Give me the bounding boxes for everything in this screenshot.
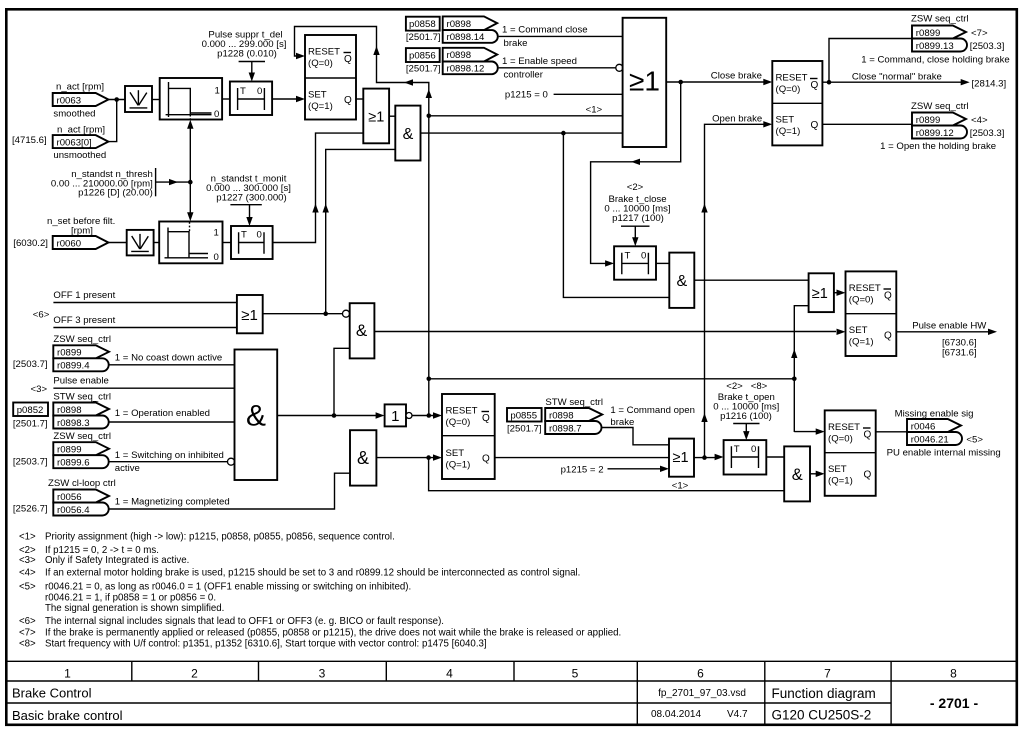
svg-text:5: 5 xyxy=(572,667,579,681)
inverter I1 xyxy=(385,404,412,426)
svg-text:&: & xyxy=(246,400,266,433)
wire G1 to AND gate A2 xyxy=(389,115,395,117)
svg-text:<5>: <5> xyxy=(966,434,983,445)
junction close-command branch xyxy=(561,131,566,136)
svg-text:&: & xyxy=(792,466,803,484)
parameter p1227 label xyxy=(206,174,291,205)
svg-text:r0899: r0899 xyxy=(916,115,941,126)
connector pair r0898.12 (enable speed controller) xyxy=(443,48,498,75)
svg-text:<7>: <7> xyxy=(971,28,988,39)
svg-text:OFF 3 present: OFF 3 present xyxy=(53,315,115,326)
svg-text:OFF 1 present: OFF 1 present xyxy=(53,290,115,301)
svg-text:If the brake is permanently ap: If the brake is permanently applied or r… xyxy=(45,628,621,639)
svg-text:<2>: <2> xyxy=(627,182,644,193)
svg-text:&: & xyxy=(403,126,414,143)
svg-text:r0899: r0899 xyxy=(57,348,82,359)
OR gate G2 (OFF present) xyxy=(237,295,263,333)
svg-text:(Q=1): (Q=1) xyxy=(849,337,874,348)
svg-text:&: & xyxy=(357,448,369,468)
timer T1 (pulse suppression delay) xyxy=(230,82,272,116)
connector pair r0899.6 (ZSW seq_ctrl switching on inhibited) xyxy=(13,431,224,474)
signal p1215 = 0 xyxy=(505,90,623,101)
wire FF1 Q to OR gate G1 xyxy=(356,98,363,100)
svg-text:ZSW seq_ctrl: ZSW seq_ctrl xyxy=(53,431,111,442)
wire I1 output to FF4 RESET xyxy=(412,412,442,418)
svg-text:[2503.7]: [2503.7] xyxy=(13,456,48,467)
label priority note 1 (open) xyxy=(672,480,689,491)
junction n_act xyxy=(114,97,119,102)
svg-text:[2814.3]: [2814.3] xyxy=(972,79,1007,90)
svg-text:<6>: <6> xyxy=(33,310,50,321)
svg-text:Open brake: Open brake xyxy=(712,113,762,124)
wire close-command branch to AND gate A4 xyxy=(563,133,669,297)
svg-text:ZSW seq_ctrl: ZSW seq_ctrl xyxy=(53,334,111,345)
parameter p1216 label xyxy=(713,381,779,424)
svg-text:p1217 (100): p1217 (100) xyxy=(612,213,664,224)
wire G6 output to FF3 RESET xyxy=(834,290,846,296)
svg-text:STW seq_ctrl: STW seq_ctrl xyxy=(545,397,603,408)
inverter bubble at A7 input xyxy=(228,458,235,465)
parameter p1228 label xyxy=(202,30,287,62)
label missing enable sig xyxy=(895,408,974,419)
label enable speed controller xyxy=(502,56,577,80)
svg-text:1 = Magnetizing completed: 1 = Magnetizing completed xyxy=(115,496,230,507)
connector pair r0046.21 xyxy=(887,419,1001,458)
svg-text:RESET: RESET xyxy=(776,73,808,84)
svg-text:<8>: <8> xyxy=(19,639,36,650)
svg-text:Q: Q xyxy=(864,470,872,481)
wire FF2 Q to r0899.12 xyxy=(822,123,912,125)
svg-text:ZSW seq_ctrl: ZSW seq_ctrl xyxy=(911,13,969,24)
svg-text:Function diagram: Function diagram xyxy=(772,686,876,701)
connector r0063[0] (n_act unsmoothed) xyxy=(12,125,108,162)
svg-text:[6730.6]: [6730.6] xyxy=(942,337,977,348)
inverter bubble at A6 input xyxy=(343,310,350,317)
junction G4 output branch xyxy=(702,455,707,460)
priority OR gate G3 (close brake) xyxy=(623,18,667,147)
wire T1 to FF1 SET xyxy=(272,96,305,102)
svg-text:- 2701 -: - 2701 - xyxy=(930,695,979,711)
svg-text:brake: brake xyxy=(610,417,634,428)
svg-text:[6731.6]: [6731.6] xyxy=(942,348,977,359)
svg-text:r0898: r0898 xyxy=(447,19,472,30)
svg-text:ZSW seq_ctrl: ZSW seq_ctrl xyxy=(911,101,969,112)
footnotes xyxy=(19,532,621,650)
svg-text:[2526.7]: [2526.7] xyxy=(13,503,48,514)
svg-text:PU enable internal missing: PU enable internal missing xyxy=(887,447,1001,458)
label command close brake xyxy=(502,24,588,48)
wire A3 output to FF4 SET xyxy=(376,454,442,460)
svg-text:&: & xyxy=(356,321,368,340)
svg-text:p0858: p0858 xyxy=(409,19,436,30)
big AND gate A7 (ZSW interlock) xyxy=(235,350,278,481)
svg-text:G120 CU250S-2: G120 CU250S-2 xyxy=(772,708,872,723)
svg-text:RESET: RESET xyxy=(446,406,478,417)
wire C2 to timer T2 xyxy=(223,242,232,244)
svg-text:<6>: <6> xyxy=(19,616,36,627)
svg-text:SET: SET xyxy=(776,115,795,126)
svg-text:6: 6 xyxy=(697,667,704,681)
title block table xyxy=(5,661,1017,725)
wire OFF-OR output to AND gate A2 input xyxy=(323,149,396,313)
svg-text:Q: Q xyxy=(864,430,872,441)
absolute-value block B2 xyxy=(127,230,154,256)
svg-text:r0063: r0063 xyxy=(57,95,82,106)
svg-text:1 = No coast down active: 1 = No coast down active xyxy=(115,352,222,363)
wire A6 output to FF3 SET xyxy=(374,329,845,335)
signal p1215 = 2 xyxy=(561,465,669,476)
svg-text:(Q=0): (Q=0) xyxy=(776,84,801,95)
svg-text:(Q=1): (Q=1) xyxy=(308,101,333,112)
RS flip-flop FF4 (open brake command) xyxy=(442,394,495,479)
svg-text:p0855: p0855 xyxy=(510,410,537,421)
svg-text:p0852: p0852 xyxy=(17,405,44,416)
wire r0899.4 to big AND A7 xyxy=(109,364,235,366)
parameter p0855 box xyxy=(507,408,542,435)
label command open brake xyxy=(610,405,695,428)
junction FF2 Qbar branch xyxy=(827,80,832,85)
wire r0898.12 to inverted input of G3 xyxy=(499,67,616,69)
svg-text:Q: Q xyxy=(884,331,892,342)
connector pair r0898.14 (command close brake) xyxy=(443,16,498,43)
OR gate G4 (open brake priority) xyxy=(669,439,694,477)
junction G3 output branch xyxy=(678,80,683,85)
parameter p1226 label (standstill threshold) xyxy=(51,168,156,199)
junction open-command rail top xyxy=(427,377,432,382)
svg-text:r0898: r0898 xyxy=(57,405,82,416)
svg-text:1 = Open the holding brake: 1 = Open the holding brake xyxy=(880,141,996,152)
parameter p0852 box xyxy=(13,403,48,430)
junction A7 output branch xyxy=(332,413,337,418)
label ZSW seq_ctrl (open holding brake) xyxy=(911,101,969,112)
wire G3 output branch to timer T3 xyxy=(591,82,681,267)
wire G4 output branch to FF2 SET xyxy=(701,113,772,457)
RS flip-flop FF5 (PU enable) xyxy=(825,410,876,495)
connector pair r0899.13 xyxy=(861,26,1010,66)
svg-text:p1226 [D] (20.00): p1226 [D] (20.00) xyxy=(78,188,153,199)
svg-text:8: 8 xyxy=(950,667,957,681)
svg-text:Missing enable sig: Missing enable sig xyxy=(895,408,974,419)
wire p1227 to timer T2 xyxy=(246,205,252,226)
svg-text:1 = Command, close holding bra: 1 = Command, close holding brake xyxy=(861,54,1010,65)
parameter p1217 label xyxy=(604,182,670,226)
wire r0056.4 to AND gate A3 xyxy=(109,473,350,509)
inverter bubble at G3 input xyxy=(616,64,623,71)
svg-text:[rpm]: [rpm] xyxy=(71,226,93,237)
svg-text:r0898: r0898 xyxy=(549,410,574,421)
svg-text:<4>: <4> xyxy=(971,115,988,126)
svg-text:Pulse enable: Pulse enable xyxy=(53,375,108,386)
svg-text:T: T xyxy=(734,444,740,455)
svg-text:Priority assignment (high -> l: Priority assignment (high -> low): p1215… xyxy=(45,532,395,543)
svg-text:Start frequency with U/f contr: Start frequency with U/f control: p1351,… xyxy=(45,639,487,650)
svg-text:<2>: <2> xyxy=(726,381,743,392)
svg-text:If an external motor holding b: If an external motor holding brake is us… xyxy=(45,568,580,579)
svg-text:[2503.7]: [2503.7] xyxy=(13,359,48,370)
svg-text:(Q=0): (Q=0) xyxy=(849,295,874,306)
svg-text:SET: SET xyxy=(849,325,868,336)
svg-text:SET: SET xyxy=(446,448,465,459)
RS flip-flop FF3 (pulse enable HW) xyxy=(846,271,897,356)
svg-text:1 = Enable speed: 1 = Enable speed xyxy=(502,56,577,67)
svg-text:1 = Operation enabled: 1 = Operation enabled xyxy=(115,408,210,419)
svg-text:Q: Q xyxy=(344,54,352,65)
junction open-command rail right xyxy=(792,377,797,382)
svg-text:STW seq_ctrl: STW seq_ctrl xyxy=(53,392,111,403)
signal close normal brake xyxy=(852,72,1006,90)
svg-text:controller: controller xyxy=(504,69,544,80)
svg-text:Q: Q xyxy=(482,413,490,424)
wire B1 to comparator xyxy=(152,99,160,101)
svg-text:[2503.3]: [2503.3] xyxy=(970,41,1005,52)
svg-text:r0899.13: r0899.13 xyxy=(916,41,954,52)
svg-text:<5>: <5> xyxy=(19,582,36,593)
svg-text:r0898: r0898 xyxy=(447,50,472,61)
svg-text:[2501.7]: [2501.7] xyxy=(406,32,441,43)
wire r0898.7 to OR gate G4 xyxy=(602,428,670,445)
svg-text:<7>: <7> xyxy=(19,628,36,639)
wire G2 output to AND gate A6 xyxy=(263,313,343,315)
svg-text:r0899.6: r0899.6 xyxy=(57,458,90,469)
svg-text:1: 1 xyxy=(64,667,71,681)
wire p1226 to comparators xyxy=(156,120,194,222)
svg-text:1: 1 xyxy=(214,227,219,238)
svg-text:r0898.7: r0898.7 xyxy=(549,423,582,434)
wire T3 to AND gate A4 xyxy=(656,262,669,264)
svg-text:1: 1 xyxy=(391,408,399,425)
svg-text:0: 0 xyxy=(214,252,219,263)
svg-text:r0063[0]: r0063[0] xyxy=(57,138,92,149)
wire G3 output to FF2 RESET xyxy=(666,71,772,86)
svg-text:0: 0 xyxy=(751,444,756,455)
connector pair r0898.7 xyxy=(545,408,602,434)
wire T4 to AND gate A5 xyxy=(766,456,784,458)
wire n_act inputs to absolute-value block xyxy=(108,100,125,142)
wire A3 output branch to AND gate A5 xyxy=(429,458,785,491)
OR gate G1 xyxy=(363,89,389,144)
junction N1 to OR gate G3 xyxy=(427,114,623,119)
svg-text:≥1: ≥1 xyxy=(241,307,258,324)
wire r0898.14 to OR gate G3 xyxy=(499,35,623,37)
svg-text:1 = Switching on inhibited: 1 = Switching on inhibited xyxy=(115,450,224,461)
AND gate A2 xyxy=(395,106,420,161)
svg-text:T: T xyxy=(240,86,246,97)
OR gate G6 (pulse enable reset) xyxy=(809,273,834,312)
svg-text:1 = Command open: 1 = Command open xyxy=(610,405,695,416)
svg-text:4: 4 xyxy=(446,667,453,681)
svg-text:fp_2701_97_03.vsd: fp_2701_97_03.vsd xyxy=(658,688,746,699)
wire inverter output rail (node N1) xyxy=(295,27,433,416)
svg-text:2: 2 xyxy=(191,667,198,681)
AND gate A6 (pulse enable HW logic) xyxy=(350,303,375,358)
svg-text:r0046.21 = 0, as long as r0046: r0046.21 = 0, as long as r0046.0 = 1 (OF… xyxy=(45,582,411,593)
svg-text:Brake Control: Brake Control xyxy=(12,686,92,701)
svg-text:Close brake: Close brake xyxy=(711,71,762,82)
svg-text:≥1: ≥1 xyxy=(629,66,660,97)
svg-text:(Q=1): (Q=1) xyxy=(776,126,801,137)
parameter p0856 box xyxy=(406,48,441,74)
svg-text:≥1: ≥1 xyxy=(672,450,688,466)
svg-text:n_act [rpm]: n_act [rpm] xyxy=(56,82,104,93)
svg-text:Q: Q xyxy=(811,120,819,131)
wire p1228 to timer T1 xyxy=(249,62,255,82)
wire r0898.3 to big AND A7 xyxy=(109,421,235,423)
wire FF2 Qbar branch to r0899.13 xyxy=(829,39,912,83)
connector pair r0898.3 (STW seq_ctrl operation enabled) xyxy=(53,392,210,429)
svg-text:unsmoothed: unsmoothed xyxy=(53,150,106,161)
svg-text:&: & xyxy=(676,273,687,290)
svg-text:r0899: r0899 xyxy=(916,28,941,39)
svg-text:0: 0 xyxy=(214,109,219,120)
svg-text:p1216 (100): p1216 (100) xyxy=(720,411,772,422)
RS flip-flop FF1 (pulse suppression) xyxy=(305,35,356,120)
svg-text:r0898.3: r0898.3 xyxy=(57,418,90,429)
svg-text:<3>: <3> xyxy=(19,555,36,566)
signal OFF 1 present xyxy=(53,290,237,303)
svg-text:1: 1 xyxy=(215,86,220,97)
signal pulse enable HW output xyxy=(896,320,997,358)
svg-text:<1>: <1> xyxy=(672,480,689,491)
wire FF2 Qbar output xyxy=(822,81,961,83)
svg-text:r0060: r0060 xyxy=(57,238,82,249)
wire B2 to comparator C2 xyxy=(154,242,160,244)
wire A2 output to priority OR gate G3 xyxy=(421,132,623,134)
svg-text:Q: Q xyxy=(482,454,490,465)
svg-text:[2501.7]: [2501.7] xyxy=(507,424,542,435)
svg-text:r0046.21: r0046.21 xyxy=(911,434,949,445)
wire FF4 Q to OR gate G4 xyxy=(495,457,669,459)
svg-text:(Q=0): (Q=0) xyxy=(308,58,333,69)
svg-text:Close "normal" brake: Close "normal" brake xyxy=(852,72,942,83)
svg-text:smoothed: smoothed xyxy=(53,109,95,120)
label priority note 1 xyxy=(586,104,603,115)
svg-text:[6030.2]: [6030.2] xyxy=(13,238,48,249)
svg-text:RESET: RESET xyxy=(308,47,340,58)
RS flip-flop FF2 (brake control) xyxy=(772,61,822,145)
wire FF5 Qbar to r0046.21 xyxy=(876,431,907,433)
timer T2 (standstill monitoring) xyxy=(231,226,273,259)
svg-text:0: 0 xyxy=(257,230,262,241)
svg-text:T: T xyxy=(625,250,631,261)
svg-text:≥1: ≥1 xyxy=(368,109,384,125)
svg-text:7: 7 xyxy=(824,667,831,681)
svg-text:0: 0 xyxy=(641,250,646,261)
svg-text:≥1: ≥1 xyxy=(812,286,828,302)
junction I1 output to rail N1 xyxy=(427,413,432,418)
svg-text:p1228 (0.010): p1228 (0.010) xyxy=(217,49,277,60)
AND gate A3 (open brake condition) xyxy=(350,430,376,485)
wire A7 output to inverter I1 xyxy=(277,412,384,418)
svg-text:[2503.3]: [2503.3] xyxy=(970,128,1005,139)
svg-text:(Q=0): (Q=0) xyxy=(446,417,471,428)
svg-text:active: active xyxy=(115,463,140,474)
svg-text:RESET: RESET xyxy=(828,422,860,433)
junction OFF branch xyxy=(323,311,328,316)
wire A5 output to FF5 SET xyxy=(810,471,825,477)
svg-text:p1215 = 2: p1215 = 2 xyxy=(561,465,604,476)
svg-text:Q: Q xyxy=(811,80,819,91)
wire big AND branch to A6 input xyxy=(334,348,350,415)
connector r0063 (n_act smoothed) xyxy=(53,82,109,120)
wire C1 to timer T1 xyxy=(222,98,230,100)
wire p1216 to timer T4 xyxy=(743,424,749,441)
svg-text:The signal generation is shown: The signal generation is shown simplifie… xyxy=(45,603,224,614)
svg-text:r0056.4: r0056.4 xyxy=(57,505,90,516)
wire r0899.6 to inverted input of A7 xyxy=(109,461,228,463)
svg-text:08.04.2014: 08.04.2014 xyxy=(651,709,701,720)
wire A4 output to OR gate G6 xyxy=(694,279,808,281)
wire G4 output to timer T4 xyxy=(694,454,724,460)
svg-text:Pulse enable HW: Pulse enable HW xyxy=(912,320,987,331)
label ZSW seq_ctrl (close holding brake) xyxy=(911,13,969,24)
svg-text:0: 0 xyxy=(257,86,262,97)
comparator block C1 (n_act standstill threshold) xyxy=(160,78,222,120)
svg-text:SET: SET xyxy=(308,90,327,101)
svg-text:r0046.21 = 1, if p0858 = 1 or: r0046.21 = 1, if p0858 = 1 or p0856 = 0. xyxy=(45,592,216,603)
label note 6 xyxy=(33,310,50,321)
svg-text:ZSW cl-loop ctrl: ZSW cl-loop ctrl xyxy=(48,478,116,489)
svg-text:r0899.4: r0899.4 xyxy=(57,361,90,372)
svg-text:<4>: <4> xyxy=(19,568,36,579)
svg-text:r0899.12: r0899.12 xyxy=(916,128,954,139)
svg-text:[4715.6]: [4715.6] xyxy=(12,135,47,146)
label STW seq_ctrl (command open brake) xyxy=(545,397,603,408)
svg-text:r0046: r0046 xyxy=(911,421,936,432)
connector pair r0056.4 (ZSW cl-loop ctrl magnetizing) xyxy=(13,478,230,516)
svg-text:Q: Q xyxy=(884,291,892,302)
AND gate A4 (close brake done) xyxy=(669,253,694,308)
svg-text:[2501.7]: [2501.7] xyxy=(13,418,48,429)
timer T3 (brake closing time) xyxy=(614,246,656,279)
svg-text:(Q=0): (Q=0) xyxy=(828,434,853,445)
junction p1226 xyxy=(188,180,193,185)
svg-text:r0899: r0899 xyxy=(57,445,82,456)
comparator block C2 (n_set standstill threshold) xyxy=(159,222,222,264)
timer T4 (brake opening time) xyxy=(724,440,767,474)
svg-text:(Q=1): (Q=1) xyxy=(828,476,853,487)
connector r0060 (n_set before filter) xyxy=(13,216,115,249)
wire T2 output to OR gate G1 xyxy=(273,133,364,242)
svg-text:p1227 (300.000): p1227 (300.000) xyxy=(216,193,286,204)
svg-text:<1>: <1> xyxy=(586,104,603,115)
wire open-command rail to G6 and FF5 RESET xyxy=(429,306,825,435)
svg-text:T: T xyxy=(241,230,247,241)
junction A3 output branch xyxy=(426,455,431,460)
svg-text:brake: brake xyxy=(504,38,528,49)
svg-text:SET: SET xyxy=(828,464,847,475)
wire r0060 to absolute-value block B2 xyxy=(108,242,126,244)
connector pair r0899.12 xyxy=(880,113,1004,152)
svg-text:<8>: <8> xyxy=(751,381,768,392)
svg-text:Only if Safety Integrated is a: Only if Safety Integrated is active. xyxy=(45,555,189,566)
svg-text:Q: Q xyxy=(344,95,352,106)
connector pair r0899.4 (ZSW seq_ctrl no coast down) xyxy=(13,334,222,372)
svg-text:r0056: r0056 xyxy=(57,492,82,503)
svg-text:p0856: p0856 xyxy=(409,51,436,62)
svg-text:p1215 = 0: p1215 = 0 xyxy=(505,90,548,101)
svg-text:n_act [rpm]: n_act [rpm] xyxy=(57,125,105,136)
AND gate A5 (open brake done) xyxy=(784,446,810,501)
signal OFF 3 present xyxy=(53,315,237,328)
svg-text:r0898.14: r0898.14 xyxy=(447,32,486,43)
svg-text:Basic brake control: Basic brake control xyxy=(12,708,123,723)
svg-text:[2501.7]: [2501.7] xyxy=(406,63,441,74)
absolute-value block B1 xyxy=(125,86,152,112)
svg-text:(Q=1): (Q=1) xyxy=(446,460,471,471)
svg-text:V4.7: V4.7 xyxy=(727,709,748,720)
svg-text:The internal signal includes s: The internal signal includes signals tha… xyxy=(45,616,444,627)
signal pulse enable xyxy=(31,375,235,395)
